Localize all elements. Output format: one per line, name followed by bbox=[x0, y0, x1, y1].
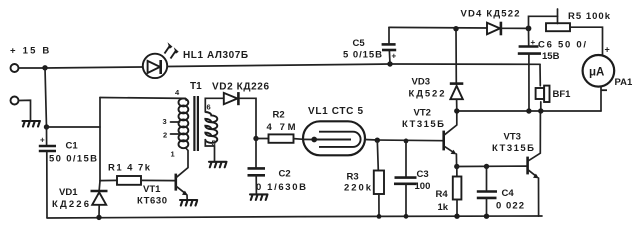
svg-text:VD3: VD3 bbox=[412, 77, 430, 88]
node rail dots bbox=[96, 215, 101, 220]
terminal X2 (common input) bbox=[11, 97, 19, 105]
svg-text:+: + bbox=[605, 45, 610, 55]
capacitor C3 bbox=[404, 139, 409, 144]
svg-text:3: 3 bbox=[163, 117, 167, 126]
transistor VT1 bbox=[175, 174, 178, 191]
resistor R2 bbox=[256, 138, 269, 140]
svg-text:R1 4 7k: R1 4 7k bbox=[108, 163, 151, 174]
wire (main rail right of LED) bbox=[167, 64, 540, 67]
transistor VT2 bbox=[442, 131, 445, 151]
svg-text:+: + bbox=[392, 52, 397, 61]
svg-text:C3: C3 bbox=[417, 169, 429, 180]
svg-text:15В: 15В bbox=[542, 51, 560, 62]
svg-text:VT2: VT2 bbox=[414, 108, 431, 119]
svg-text:КД522: КД522 bbox=[409, 89, 445, 100]
svg-text:4 7М: 4 7М bbox=[267, 122, 296, 133]
svg-text:2: 2 bbox=[163, 131, 167, 140]
svg-text:+ 15 В: + 15 В bbox=[10, 46, 51, 57]
node lamp/R3 junction bbox=[375, 138, 380, 143]
resistor R3 bbox=[377, 140, 378, 170]
wire (lamp to VT2 base) bbox=[365, 140, 443, 141]
diode VD4 bbox=[487, 23, 500, 35]
resistor R1 bbox=[100, 179, 117, 181]
svg-text:VD2 КД226: VD2 КД226 bbox=[212, 82, 269, 93]
svg-text:КД226: КД226 bbox=[52, 199, 89, 210]
svg-text:R3: R3 bbox=[347, 172, 359, 183]
wire (rail from C1 branch down) bbox=[45, 68, 47, 127]
node top junction dot bbox=[453, 26, 458, 31]
wire (collector bus) bbox=[457, 110, 601, 112]
wire (branch to transformer column) bbox=[47, 126, 101, 128]
diode VD3 bbox=[455, 29, 457, 83]
capacitor C1 bbox=[46, 127, 48, 145]
node junction dot bbox=[42, 65, 47, 70]
T1 primary winding bbox=[179, 98, 189, 148]
node bus dots bbox=[454, 108, 459, 113]
svg-text:+: + bbox=[40, 136, 45, 145]
wire (top pump wire) bbox=[389, 26, 487, 29]
svg-text:VD1: VD1 bbox=[59, 187, 78, 198]
wire (to T1 pin 4) bbox=[100, 97, 186, 100]
transistor VT3 bbox=[526, 157, 529, 175]
diode VD2 bbox=[224, 93, 238, 104]
T1 tap 2 bbox=[171, 133, 180, 135]
diode VD1 bbox=[98, 181, 101, 190]
svg-text:μА: μА bbox=[589, 67, 604, 79]
node VT2 emitter junction bbox=[454, 164, 459, 169]
capacitor C2 bbox=[255, 139, 257, 168]
ground bbox=[23, 121, 41, 127]
svg-text:+: + bbox=[531, 38, 536, 47]
svg-text:КТ630: КТ630 bbox=[137, 196, 167, 207]
capacitor C4 bbox=[484, 164, 489, 169]
svg-text:1k: 1k bbox=[438, 202, 449, 213]
resistor R5 bbox=[546, 23, 570, 31]
wire (R5 left stub) bbox=[557, 9, 559, 24]
wire (bottom ground rail) bbox=[47, 216, 542, 218]
svg-text:BF1: BF1 bbox=[553, 89, 572, 100]
wire bbox=[19, 100, 31, 120]
svg-text:C1: C1 bbox=[66, 141, 79, 152]
svg-text:HL1 АЛ307Б: HL1 АЛ307Б bbox=[183, 50, 248, 61]
svg-text:C5: C5 bbox=[353, 38, 366, 49]
wire T1 pin6 riser bbox=[205, 98, 223, 112]
node VD2/R2/C2 junction bbox=[253, 136, 258, 141]
T1 secondary winding bbox=[205, 112, 217, 143]
svg-text:PA1: PA1 bbox=[615, 77, 633, 88]
node junction dot bbox=[44, 124, 49, 129]
ground bbox=[250, 194, 268, 200]
wire bbox=[19, 67, 143, 68]
capacitor C5 bbox=[387, 61, 392, 66]
svg-text:0 1/630В: 0 1/630В bbox=[256, 182, 306, 193]
terminal X1 (+15V input) bbox=[11, 64, 19, 72]
svg-text:5 0/15В: 5 0/15В bbox=[343, 50, 382, 61]
svg-text:C2: C2 bbox=[279, 169, 291, 180]
meter PA1 bbox=[583, 55, 615, 87]
svg-text:6: 6 bbox=[207, 103, 211, 112]
capacitor C6 bbox=[528, 28, 530, 45]
svg-text:50 0/15В: 50 0/15В bbox=[49, 154, 97, 165]
ground bbox=[209, 162, 227, 168]
svg-text:1: 1 bbox=[171, 150, 175, 159]
svg-text:VL1 СТС 5: VL1 СТС 5 bbox=[308, 106, 363, 117]
svg-text:C4: C4 bbox=[502, 188, 515, 199]
T1 core bbox=[193, 96, 195, 151]
svg-text:0 022: 0 022 bbox=[496, 200, 524, 211]
wire (riser to R5) bbox=[529, 16, 558, 28]
svg-text:R5 100k: R5 100k bbox=[568, 11, 611, 22]
Geiger tube VL1 bbox=[303, 121, 365, 155]
svg-text:VT1: VT1 bbox=[143, 184, 161, 195]
svg-text:VT3: VT3 bbox=[504, 132, 521, 143]
wire (BF1 top lead) bbox=[539, 64, 541, 86]
svg-text:R2: R2 bbox=[273, 110, 285, 121]
svg-text:T1: T1 bbox=[190, 81, 202, 92]
LED HL1 bbox=[143, 42, 179, 78]
wire (VT2 emitter to VT3 base) bbox=[457, 165, 527, 167]
wire (left column vertical) bbox=[99, 98, 101, 182]
ground bbox=[180, 200, 197, 206]
node VD4/C6 junction bbox=[526, 26, 532, 32]
svg-text:100: 100 bbox=[415, 181, 431, 192]
wire T1 pin5 to ground bbox=[205, 140, 214, 161]
svg-text:VD4 КД522: VD4 КД522 bbox=[461, 9, 520, 20]
T1 tap 3 bbox=[171, 121, 180, 123]
svg-text:R4: R4 bbox=[436, 189, 449, 200]
resistor R4 bbox=[456, 167, 458, 177]
svg-text:220k: 220k bbox=[344, 182, 372, 193]
buzzer BF1 bbox=[536, 88, 545, 99]
